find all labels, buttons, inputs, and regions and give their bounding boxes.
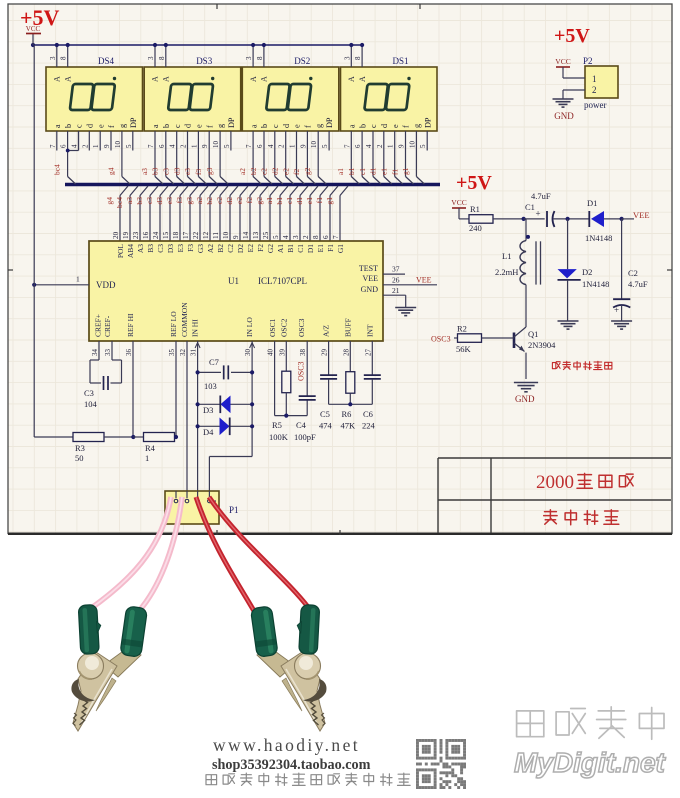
svg-text:U1: U1 xyxy=(228,276,239,286)
U1 bottom pin stubs + numbers xyxy=(98,341,100,360)
svg-text:3: 3 xyxy=(245,56,253,60)
svg-text:C2: C2 xyxy=(628,268,638,278)
svg-text:12: 12 xyxy=(202,231,210,239)
svg-text:6: 6 xyxy=(256,144,264,148)
svg-text:9: 9 xyxy=(232,235,240,239)
svg-text:29: 29 xyxy=(321,349,329,357)
svg-text:L1: L1 xyxy=(502,251,511,261)
svg-text:VEE: VEE xyxy=(416,275,432,284)
svg-text:e1: e1 xyxy=(305,197,314,204)
svg-text:103: 103 xyxy=(204,381,217,391)
svg-text:e: e xyxy=(391,124,400,128)
svg-text:9: 9 xyxy=(299,144,307,148)
svg-text:22: 22 xyxy=(192,231,200,239)
svg-text:D3: D3 xyxy=(166,244,175,253)
svg-text:c3: c3 xyxy=(145,197,154,204)
svg-text:D2: D2 xyxy=(582,267,592,277)
svg-text:P2: P2 xyxy=(583,56,593,66)
svg-text:5: 5 xyxy=(272,235,280,239)
svg-text:6: 6 xyxy=(354,144,362,148)
svg-text:d2: d2 xyxy=(271,167,280,175)
svg-text:A: A xyxy=(151,76,160,82)
svg-text:A: A xyxy=(249,76,258,82)
svg-text:3: 3 xyxy=(49,56,57,60)
join wire C5-R6-C6 xyxy=(328,379,330,404)
svg-text:C1: C1 xyxy=(525,202,535,212)
svg-text:40: 40 xyxy=(267,349,275,357)
resistor R3 xyxy=(34,436,73,438)
svg-text:+: + xyxy=(614,305,619,315)
display DS2 xyxy=(242,56,338,131)
svg-text:ICL7107CPL: ICL7107CPL xyxy=(258,276,307,286)
svg-text:g4: g4 xyxy=(107,167,116,175)
svg-text:c: c xyxy=(271,124,280,128)
svg-text:b2: b2 xyxy=(249,167,258,175)
segment bus xyxy=(65,183,440,186)
svg-text:a: a xyxy=(348,124,357,128)
svg-text:4: 4 xyxy=(282,235,290,239)
bus exits to U1 pins xyxy=(120,186,128,196)
left +5V feeder wire xyxy=(33,45,35,437)
svg-text:TEST: TEST xyxy=(359,264,378,273)
svg-text:16: 16 xyxy=(142,231,150,239)
svg-text:P1: P1 xyxy=(229,505,239,515)
svg-text:R1: R1 xyxy=(470,204,480,214)
svg-text:1: 1 xyxy=(76,275,80,284)
svg-text:f3: f3 xyxy=(175,197,184,204)
svg-text:5: 5 xyxy=(419,144,427,148)
svg-text:g2: g2 xyxy=(303,167,312,175)
svg-text:a2: a2 xyxy=(238,168,247,175)
svg-text:a1: a1 xyxy=(336,168,345,175)
svg-text:c2: c2 xyxy=(260,168,269,175)
svg-text:6: 6 xyxy=(322,235,330,239)
svg-text:a: a xyxy=(53,124,62,128)
svg-text:17: 17 xyxy=(182,231,190,239)
capacitor C1 xyxy=(522,217,526,221)
svg-text:f: f xyxy=(107,125,116,128)
svg-text:15: 15 xyxy=(162,231,170,239)
svg-text:DP: DP xyxy=(129,117,138,128)
svg-text:C2: C2 xyxy=(226,244,235,253)
svg-text:a3: a3 xyxy=(125,197,134,204)
svg-text:F1: F1 xyxy=(326,244,335,252)
capacitor C6 xyxy=(364,374,381,376)
svg-text:d3: d3 xyxy=(155,197,164,205)
resistor R1 xyxy=(459,218,469,220)
svg-text:VEE: VEE xyxy=(633,210,650,220)
svg-text:2.2mH: 2.2mH xyxy=(495,267,518,277)
svg-text:MyDigit.net: MyDigit.net xyxy=(514,747,667,778)
resistor R4 xyxy=(131,435,135,439)
svg-text:B2: B2 xyxy=(216,244,225,253)
schematic sheet background xyxy=(8,4,672,534)
svg-text:OSC3: OSC3 xyxy=(431,335,451,344)
svg-text:7: 7 xyxy=(332,235,340,239)
svg-text:4: 4 xyxy=(267,144,275,148)
svg-text:GND: GND xyxy=(361,285,379,294)
display segment wires to bus xyxy=(56,131,58,151)
svg-text:Q1: Q1 xyxy=(528,329,538,339)
svg-text:REF LO: REF LO xyxy=(169,311,178,337)
svg-text:R2: R2 xyxy=(457,324,467,334)
svg-text:24: 24 xyxy=(152,231,160,239)
svg-text:F2: F2 xyxy=(256,244,265,252)
svg-text:b3: b3 xyxy=(151,167,160,175)
display top pins 3,8 xyxy=(350,45,352,67)
svg-text:b1: b1 xyxy=(347,167,356,175)
svg-text:d: d xyxy=(282,124,291,128)
svg-text:56K: 56K xyxy=(456,344,472,354)
svg-text:b: b xyxy=(64,124,73,128)
svg-text:VDD: VDD xyxy=(96,280,116,290)
svg-text:2: 2 xyxy=(81,144,89,148)
svg-text:37: 37 xyxy=(392,265,400,274)
svg-text:GND: GND xyxy=(554,111,574,121)
svg-text:DS4: DS4 xyxy=(98,56,115,66)
svg-text:8: 8 xyxy=(60,56,68,60)
ground under Q1 xyxy=(514,382,538,384)
svg-text:2: 2 xyxy=(278,144,286,148)
svg-text:b2: b2 xyxy=(205,197,214,205)
svg-text:DP: DP xyxy=(227,117,236,128)
svg-text:d2: d2 xyxy=(225,197,234,205)
svg-text:g1: g1 xyxy=(325,197,334,205)
svg-text:B1: B1 xyxy=(286,244,295,253)
display top pins 3,8 xyxy=(56,45,58,67)
pink test lead wires xyxy=(90,497,171,609)
transistor Q1 2N3904 xyxy=(513,333,516,349)
svg-text:8: 8 xyxy=(312,235,320,239)
svg-text:f: f xyxy=(304,125,313,128)
capacitor C5 xyxy=(320,374,337,376)
display top pins 3,8 xyxy=(252,45,254,67)
svg-text:e: e xyxy=(195,124,204,128)
svg-text:9: 9 xyxy=(201,144,209,148)
svg-text:g: g xyxy=(314,124,323,128)
svg-text:g: g xyxy=(216,124,225,128)
svg-text:7: 7 xyxy=(343,144,351,148)
svg-text:IN LO: IN LO xyxy=(245,317,254,337)
svg-text:10: 10 xyxy=(310,141,318,149)
svg-text:2N3904: 2N3904 xyxy=(528,340,556,350)
svg-text:38: 38 xyxy=(299,349,307,357)
svg-text:2: 2 xyxy=(302,235,310,239)
svg-text:3: 3 xyxy=(343,56,351,60)
svg-text:D2: D2 xyxy=(236,244,245,253)
svg-text:10: 10 xyxy=(114,141,122,149)
svg-text:d: d xyxy=(380,124,389,128)
svg-text:1: 1 xyxy=(145,453,149,463)
svg-text:shop35392304.taobao.com: shop35392304.taobao.com xyxy=(212,757,371,773)
watermark scan qr note xyxy=(206,775,217,785)
svg-text:e: e xyxy=(293,124,302,128)
svg-text:C4: C4 xyxy=(296,420,307,430)
svg-text:10: 10 xyxy=(212,141,220,149)
svg-text:bc4: bc4 xyxy=(115,197,124,208)
svg-text:g: g xyxy=(413,124,422,128)
svg-text:c: c xyxy=(369,124,378,128)
svg-text:power: power xyxy=(584,100,607,110)
svg-text:c: c xyxy=(173,124,182,128)
svg-text:A: A xyxy=(53,76,62,82)
P2 pin2 to ground xyxy=(563,89,585,91)
svg-text:2: 2 xyxy=(592,85,597,95)
svg-text:c2: c2 xyxy=(215,197,224,204)
svg-text:33: 33 xyxy=(104,349,112,357)
svg-text:4: 4 xyxy=(71,144,79,148)
svg-text:7: 7 xyxy=(245,144,253,148)
svg-text:G2: G2 xyxy=(266,244,275,253)
svg-text:d3: d3 xyxy=(172,167,181,175)
diode D4 xyxy=(198,425,253,427)
svg-text:104: 104 xyxy=(84,399,98,409)
svg-text:a: a xyxy=(249,124,258,128)
svg-text:A3: A3 xyxy=(136,244,145,253)
svg-text:G3: G3 xyxy=(196,244,205,253)
svg-text:5: 5 xyxy=(321,144,329,148)
svg-text:a1: a1 xyxy=(265,197,274,204)
svg-text:20: 20 xyxy=(112,231,120,239)
photo area background xyxy=(0,535,680,798)
svg-text:+: + xyxy=(535,209,540,219)
alligator clips left pair xyxy=(71,604,147,731)
svg-text:DS3: DS3 xyxy=(196,56,213,66)
svg-text:R3: R3 xyxy=(75,443,85,453)
svg-text:POL: POL xyxy=(116,244,125,259)
svg-text:VCC: VCC xyxy=(451,198,466,207)
svg-text:b: b xyxy=(260,124,269,128)
ground at P2 xyxy=(553,98,574,100)
capacitor C3 xyxy=(90,359,99,361)
diode D1 xyxy=(566,217,570,221)
power port VCC top-left xyxy=(31,43,35,47)
svg-text:36: 36 xyxy=(125,349,133,357)
svg-text:23: 23 xyxy=(132,231,140,239)
svg-text:1: 1 xyxy=(190,144,198,148)
svg-text:C3: C3 xyxy=(156,244,165,253)
capacitor C7 xyxy=(198,371,221,373)
op-amp/ADC U1 ICL7107CPL box xyxy=(89,241,383,341)
svg-text:R5: R5 xyxy=(272,420,282,430)
svg-text:D1: D1 xyxy=(587,198,597,208)
svg-text:a2: a2 xyxy=(195,197,204,204)
svg-text:f2: f2 xyxy=(245,197,254,204)
svg-text:11: 11 xyxy=(212,232,220,239)
svg-text:474: 474 xyxy=(319,421,333,431)
svg-text:OSC1: OSC1 xyxy=(268,318,277,337)
red test lead wires xyxy=(196,497,254,611)
svg-text:bc4: bc4 xyxy=(53,164,62,175)
ground under C2 xyxy=(611,320,632,322)
svg-text:CREF-: CREF- xyxy=(103,315,112,337)
svg-text:D1: D1 xyxy=(306,244,315,253)
company name xyxy=(544,510,557,524)
svg-text:C7: C7 xyxy=(209,357,219,367)
display DS3 xyxy=(144,56,241,131)
svg-text:224: 224 xyxy=(362,421,376,431)
ground under D2 xyxy=(558,320,579,322)
svg-text:a: a xyxy=(151,124,160,128)
svg-text:100K: 100K xyxy=(269,432,289,442)
svg-text:26: 26 xyxy=(392,275,400,284)
svg-text:4: 4 xyxy=(169,144,177,148)
svg-text:g1: g1 xyxy=(401,167,410,175)
resistor R2 xyxy=(454,337,458,339)
svg-text:8: 8 xyxy=(158,56,166,60)
svg-text:c1: c1 xyxy=(285,197,294,204)
display DS4 xyxy=(46,56,143,131)
svg-text:14: 14 xyxy=(242,231,250,239)
svg-text:21: 21 xyxy=(392,286,400,295)
svg-text:6: 6 xyxy=(158,144,166,148)
svg-text:D3: D3 xyxy=(203,405,213,415)
svg-text:10: 10 xyxy=(222,231,230,239)
capacitor C2 xyxy=(621,219,623,299)
svg-text:A2: A2 xyxy=(206,244,215,253)
svg-text:50: 50 xyxy=(75,453,84,463)
svg-text:34: 34 xyxy=(91,349,99,357)
svg-text:1: 1 xyxy=(92,144,100,148)
svg-text:a3: a3 xyxy=(140,168,149,175)
svg-text:3: 3 xyxy=(292,235,300,239)
svg-text:d: d xyxy=(86,124,95,128)
svg-text:+5V: +5V xyxy=(554,25,590,47)
svg-text:e: e xyxy=(96,124,105,128)
svg-text:28: 28 xyxy=(342,349,350,357)
svg-text:2000: 2000 xyxy=(536,472,574,493)
svg-text:R4: R4 xyxy=(145,443,156,453)
svg-text:d1: d1 xyxy=(295,197,304,205)
svg-text:1N4148: 1N4148 xyxy=(582,279,609,289)
svg-text:A: A xyxy=(347,76,356,82)
net label VEE right xyxy=(620,217,624,221)
svg-text:10: 10 xyxy=(408,141,416,149)
U1 pin 37 TEST xyxy=(383,273,405,275)
svg-text:DS2: DS2 xyxy=(294,56,310,66)
svg-text:C5: C5 xyxy=(320,409,330,419)
svg-text:35: 35 xyxy=(168,349,176,357)
svg-text:7: 7 xyxy=(147,144,155,148)
connector P2 xyxy=(585,66,618,98)
svg-text:3: 3 xyxy=(147,56,155,60)
svg-text:240: 240 xyxy=(469,223,482,233)
svg-text:f1: f1 xyxy=(315,197,324,204)
svg-text:6: 6 xyxy=(60,144,68,148)
svg-text:g2: g2 xyxy=(255,197,264,205)
title block xyxy=(438,457,671,459)
alligator clips right pair (mirrored) xyxy=(250,604,326,731)
svg-text:7: 7 xyxy=(49,144,57,148)
diode D2 xyxy=(567,219,569,269)
diode D3 xyxy=(198,403,253,405)
svg-text:39: 39 xyxy=(278,349,286,357)
svg-text:E1: E1 xyxy=(316,244,325,253)
svg-text:g3: g3 xyxy=(205,167,214,175)
svg-text:E2: E2 xyxy=(246,244,255,253)
svg-text:VCC: VCC xyxy=(555,57,570,66)
svg-text:DP: DP xyxy=(325,117,334,128)
svg-text:25: 25 xyxy=(262,231,270,239)
svg-text:A1: A1 xyxy=(276,244,285,253)
svg-text:c: c xyxy=(75,124,84,128)
svg-text:OSC3: OSC3 xyxy=(297,361,306,381)
svg-text:1: 1 xyxy=(592,74,597,84)
svg-text:R6: R6 xyxy=(342,409,352,419)
svg-text:13: 13 xyxy=(252,231,260,239)
svg-text:BUFF: BUFF xyxy=(343,318,352,337)
svg-text:f: f xyxy=(205,125,214,128)
DS4 b-c join xyxy=(78,131,80,151)
svg-text:COMMON: COMMON xyxy=(180,302,189,337)
QR code xyxy=(416,739,466,789)
U1 pin 26 VEE xyxy=(383,284,437,286)
svg-text:47K: 47K xyxy=(341,421,357,431)
svg-text:+5V: +5V xyxy=(20,5,60,30)
svg-text:100pF: 100pF xyxy=(294,432,316,442)
svg-text:5: 5 xyxy=(223,144,231,148)
svg-text:A: A xyxy=(358,76,367,82)
wire IN LO loop to P1 xyxy=(209,456,252,458)
red note 负压产生电路 xyxy=(552,362,560,369)
+5V rail wire xyxy=(33,44,362,46)
svg-text:e3: e3 xyxy=(183,168,192,175)
watermark mydigit xyxy=(517,711,544,737)
svg-text:18: 18 xyxy=(172,231,180,239)
svg-text:31: 31 xyxy=(190,349,198,357)
svg-text:GND: GND xyxy=(515,394,535,404)
svg-text:A: A xyxy=(63,76,72,82)
svg-text:30: 30 xyxy=(244,349,252,357)
svg-text:IN HI: IN HI xyxy=(191,319,200,337)
svg-text:8: 8 xyxy=(256,56,264,60)
svg-text:b: b xyxy=(358,124,367,128)
connector P1 xyxy=(165,491,219,524)
svg-text:b1: b1 xyxy=(275,197,284,205)
svg-text:1: 1 xyxy=(289,144,297,148)
sheet border xyxy=(8,4,672,534)
ground at U1 pin21 xyxy=(395,307,416,309)
svg-text:1: 1 xyxy=(387,144,395,148)
OSC network R5 C4 xyxy=(282,371,291,393)
svg-text:E3: E3 xyxy=(176,244,185,253)
inductor L1 xyxy=(524,218,526,220)
svg-text:19: 19 xyxy=(122,231,130,239)
svg-text:DS1: DS1 xyxy=(393,56,409,66)
svg-text:A: A xyxy=(162,76,171,82)
svg-text:f2: f2 xyxy=(292,169,301,175)
svg-text:f3: f3 xyxy=(194,169,203,175)
svg-text:A: A xyxy=(260,76,269,82)
svg-text:5: 5 xyxy=(125,144,133,148)
U1 pin 21 GND xyxy=(383,294,406,296)
svg-text:REF HI: REF HI xyxy=(126,313,135,337)
svg-text:d: d xyxy=(184,124,193,128)
svg-text:2: 2 xyxy=(180,144,188,148)
svg-text:e2: e2 xyxy=(281,168,290,175)
U1 pin 1 VDD wire xyxy=(34,284,89,286)
svg-text:32: 32 xyxy=(179,349,187,357)
display top pins 3,8 xyxy=(154,45,156,67)
svg-text:b3: b3 xyxy=(135,197,144,205)
svg-text:A/Z: A/Z xyxy=(322,325,331,338)
resistor R6 xyxy=(346,372,355,394)
svg-text:VEE: VEE xyxy=(362,274,378,283)
display DS1 xyxy=(341,56,438,131)
svg-text:1N4148: 1N4148 xyxy=(585,233,612,243)
svg-text:2: 2 xyxy=(376,144,384,148)
svg-text:CREF+: CREF+ xyxy=(94,314,103,337)
